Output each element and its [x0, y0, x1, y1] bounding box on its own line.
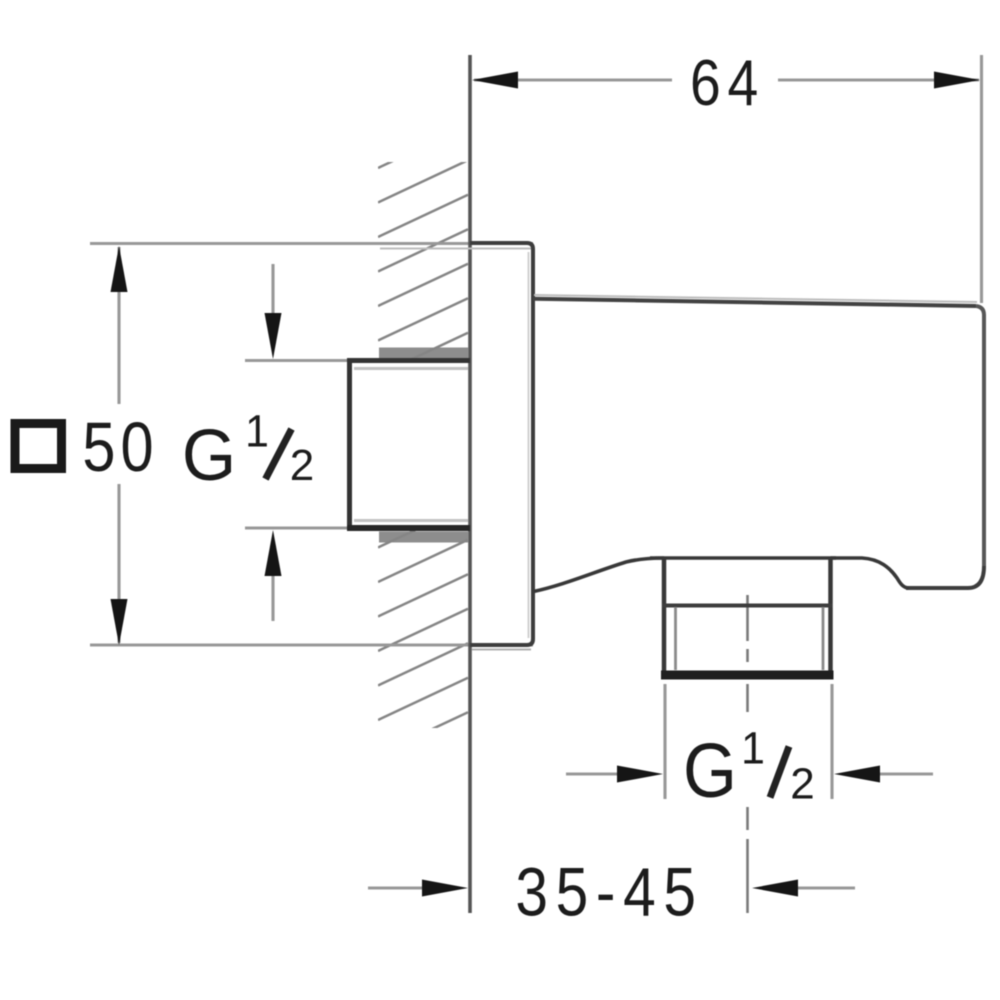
svg-text:35-45: 35-45: [515, 853, 703, 931]
svg-text:G: G: [182, 416, 236, 496]
svg-text:2: 2: [790, 760, 814, 809]
svg-text:2: 2: [290, 441, 314, 490]
svg-text:64: 64: [690, 46, 765, 119]
svg-text:G: G: [683, 728, 737, 814]
svg-text:1: 1: [741, 724, 765, 774]
svg-text:50: 50: [82, 407, 158, 486]
svg-text:1: 1: [245, 407, 269, 457]
